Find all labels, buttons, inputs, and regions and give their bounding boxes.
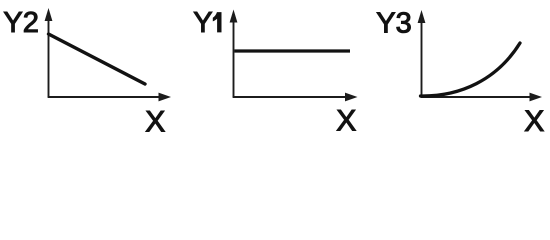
- svg-text:X: X: [524, 105, 544, 138]
- digit 1 of label Y1 (drawn, no foot serif): [213, 12, 222, 32]
- svg-text:X: X: [336, 104, 356, 137]
- y-axis (panel 3): [421, 22, 423, 97]
- x-axis (panel 2): [233, 96, 347, 98]
- function line Y1 (constant): [235, 49, 351, 52]
- svg-text:Y3: Y3: [376, 7, 411, 39]
- x-axis arrowhead (panel 3): [530, 93, 543, 102]
- y-axis (panel 1): [48, 19, 50, 97]
- svg-text:Y2: Y2: [3, 7, 38, 39]
- x-axis (panel 1): [48, 96, 161, 98]
- x-axis (panel 3): [421, 96, 531, 98]
- function line Y2 (decreasing): [49, 34, 146, 84]
- y-axis arrowhead (panel 3): [418, 10, 426, 23]
- y-axis arrowhead (panel 1): [45, 8, 53, 21]
- function curve Y3 (convex increasing): [421, 43, 521, 96]
- svg-text:Y: Y: [193, 7, 212, 39]
- svg-text:X: X: [145, 106, 165, 139]
- x-axis arrowhead (panel 1): [159, 93, 172, 102]
- y-axis arrowhead (panel 2): [230, 10, 238, 23]
- x-axis arrowhead (panel 2): [345, 93, 358, 102]
- y-axis (panel 2): [233, 21, 235, 97]
